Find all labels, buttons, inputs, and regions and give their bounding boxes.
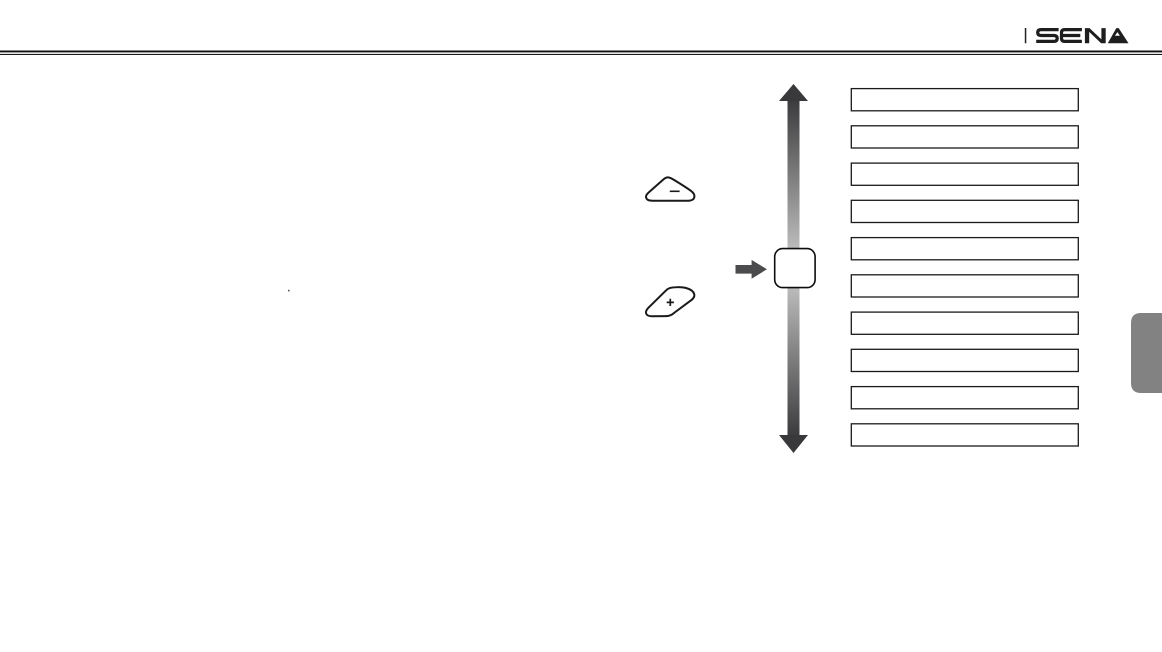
stray speck [288,290,290,292]
menu box 3 [851,163,1078,185]
slider arrowhead up [779,84,808,101]
menu box 8 [851,349,1078,371]
letter E [1062,30,1082,42]
letter S [1036,30,1058,42]
pointer arrow [736,260,767,279]
slider knob [775,249,815,288]
menu box 2 [851,126,1078,148]
menu box 4 [851,200,1078,222]
SENA logo [1036,28,1128,43]
menu box 1 [851,89,1078,111]
menu box 7 [851,312,1078,334]
header rule (double line) [0,51,1162,56]
menu box 9 [851,387,1078,409]
slider arrowhead down [779,435,808,453]
letter E middle bar [1062,34,1081,37]
slider shaft (gradient) [788,100,800,436]
menu box 6 [851,275,1078,297]
menu box 10 [851,424,1078,446]
plus label [667,299,674,306]
volume up button (+) [646,287,694,316]
letter N [1085,28,1106,43]
minus label [670,191,680,193]
volume down button (-) [646,177,694,200]
side section tab [1131,313,1162,393]
logo separator bar [1025,28,1027,43]
letter A [1108,28,1129,43]
menu box 5 [851,238,1078,260]
